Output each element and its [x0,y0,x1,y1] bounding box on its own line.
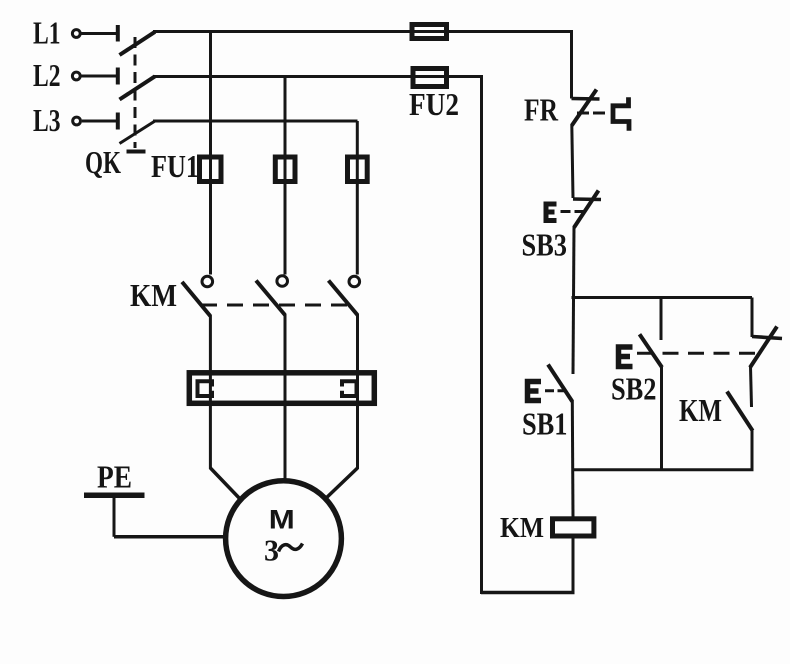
svg-text:M: M [269,505,295,535]
wire control line top [570,30,573,99]
svg-text:KM: KM [500,513,544,544]
motor M circle [226,481,342,597]
svg-text:SB1: SB1 [522,407,568,442]
KM fixed terminal circle 3 [349,276,360,287]
wire coil to bottom [572,538,575,593]
terminal L2 [72,72,80,80]
fuse FU1b [275,157,295,182]
SB1 contact blade [548,365,572,402]
terminal L3 [73,117,81,125]
motor phase tilde [279,544,303,552]
wire L1 rail [153,30,572,33]
wire KM aux lower [751,430,754,471]
wire L2 stub [82,75,117,78]
svg-text:FR: FR [524,93,559,128]
svg-text:FU1: FU1 [151,149,199,184]
wire control bottom [481,591,575,595]
wire L3 stub [82,120,117,123]
FR contact blade [572,90,597,126]
wire SB2-NC upper [751,298,754,338]
QK handle bar [127,150,146,154]
fuse FU2a [412,25,447,39]
QK blade L3 [120,121,156,144]
svg-text:SB2: SB2 [611,372,657,407]
SB2 NC contact blade [750,327,777,368]
fuse FU2b [413,69,447,87]
FR actuator hook [613,97,629,130]
wire below KM blade 1 [209,315,212,469]
QK fixed contact L1 [116,25,120,42]
wire L2 rail [153,75,481,78]
KM main contact blade 3 [329,281,358,316]
QK blade L2 [120,76,156,99]
terminal L1 [72,30,80,38]
SB3 pushbutton actuator E [546,204,557,221]
wire SB1 to coil [571,401,575,517]
KM auxiliary contact blade [727,392,753,431]
QK linkage (dashed) [134,37,137,148]
svg-text:PE: PE [97,460,132,495]
KM fixed terminal circle 1 [202,276,213,287]
svg-text:KM: KM [130,278,177,313]
svg-text:L3: L3 [33,103,61,138]
FR contact seat [572,97,600,101]
wire FR to SB3 [572,125,573,199]
fuse FU1a [200,157,222,182]
SB2 linkage (dashed) [637,352,760,355]
svg-text:L2: L2 [33,58,61,93]
wire below KM blade 2 [284,314,287,482]
svg-text:3: 3 [264,534,279,568]
PE ground bar [84,493,145,499]
PE wire to motor [114,535,228,539]
wire branch top [572,296,753,299]
KM main linkage (dashed) [201,304,348,307]
wire phase3 drop [356,121,359,275]
QK fixed contact L3 [116,113,120,130]
fuse FU1c [348,157,368,182]
motor lead left [210,468,242,501]
SB1 actuator link (dashed) [545,389,567,392]
svg-text:FU2: FU2 [409,87,459,122]
FR linkage (dashed) [577,112,609,115]
wire branch bottom [572,468,754,471]
wire L3 rail [153,120,358,123]
thermal relay FR heater box [189,373,374,404]
svg-text:KM: KM [679,393,722,428]
wire SB2 upper [660,298,663,341]
wire below KM blade 3 [356,314,359,469]
wire control return [480,75,483,594]
KM fixed terminal circle 2 [277,276,288,287]
FR heater element right [342,381,357,396]
SB3 contact blade [574,191,599,228]
wire SB2 lower [660,367,663,471]
SB3 contact seat [573,197,601,201]
wire SB3 to SB1 [573,227,574,375]
svg-text:SB3: SB3 [522,228,568,263]
SB2 pushbutton actuator E [619,347,633,367]
QK fixed contact L2 [116,68,120,85]
wire NC to KM aux [751,367,752,408]
SB2 NC contact seat [752,337,782,339]
PE wire vertical [113,498,116,537]
motor lead right [323,468,358,501]
svg-text:QK: QK [85,145,121,180]
SB2 contact blade [640,334,663,367]
FR heater element left [198,381,213,396]
KM main contact blade 2 [256,281,285,316]
svg-text:L1: L1 [33,16,61,51]
KM main contact blade 1 [182,282,210,316]
SB3 actuator link (dashed) [561,210,586,213]
wire phase1 drop [209,32,212,275]
wire L1 stub [82,32,117,35]
SB1 pushbutton actuator E [528,382,542,401]
QK blade L1 [120,32,156,55]
contactor coil KM [553,519,594,536]
wire phase2 drop [284,77,287,275]
